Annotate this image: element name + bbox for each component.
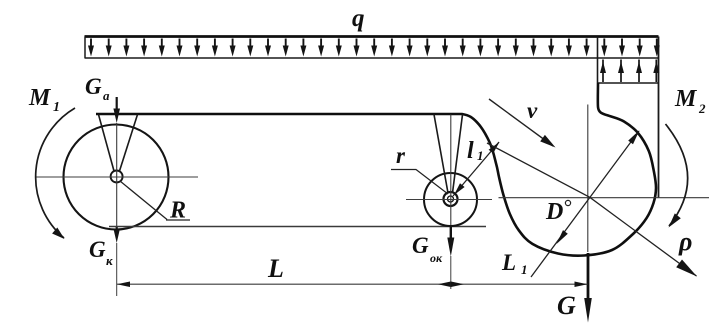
force Ga arrow <box>113 97 120 123</box>
pulley 1 wedge left <box>99 115 115 172</box>
label R <box>169 198 186 224</box>
svg-text:ν: ν <box>527 98 538 123</box>
pulley 2 hub inner <box>448 196 454 202</box>
label Gok <box>412 233 443 265</box>
radius r leader <box>391 170 448 195</box>
moment M1 arc <box>36 108 75 239</box>
belt line through drum center and force rho arrow <box>487 143 697 277</box>
svg-text:D: D <box>545 199 563 225</box>
svg-text:a: a <box>103 88 110 103</box>
dimension arrow left end <box>117 282 130 288</box>
svg-text:L: L <box>501 250 516 275</box>
dimension line L and L1 <box>117 283 588 285</box>
label rho <box>678 227 692 256</box>
svg-text:ок: ок <box>430 251 443 265</box>
extension line below Gk <box>116 243 118 296</box>
degree mark after D <box>565 200 570 205</box>
label M1 <box>28 85 60 115</box>
moment M2 arc <box>666 124 688 228</box>
pulley 1 wedge right <box>120 115 138 172</box>
pulley 2 wedge left <box>434 115 448 194</box>
second load box left edge <box>597 37 599 84</box>
dimension junction arrow pointing right <box>451 282 464 288</box>
svg-text:L: L <box>267 254 284 283</box>
svg-text:к: к <box>106 253 113 268</box>
distributed load q band top line <box>85 35 659 38</box>
distributed load arrows row 1 <box>88 39 660 57</box>
svg-text:1: 1 <box>521 262 528 277</box>
svg-text:G: G <box>412 233 429 258</box>
radius r label <box>396 143 406 168</box>
label L1 <box>501 250 528 277</box>
force Gk arrow <box>113 227 120 243</box>
force G arrow <box>584 253 592 323</box>
force Gok arrow <box>447 226 454 257</box>
svg-text:ρ: ρ <box>678 227 692 256</box>
label q <box>352 5 365 32</box>
svg-text:M: M <box>674 86 698 112</box>
load band right edge / right rope vertical <box>658 37 660 198</box>
pulley 1 horizontal centerline <box>36 176 198 178</box>
dimension junction arrow pointing left <box>438 282 451 288</box>
label l1 <box>467 138 484 164</box>
load band left edge <box>84 37 86 59</box>
label D <box>545 199 563 225</box>
pulley 2 wedge right <box>453 115 463 194</box>
label L <box>267 254 284 283</box>
second load box bottom line <box>598 82 659 84</box>
pulley 1 hub <box>111 171 123 183</box>
svg-text:G: G <box>89 237 106 262</box>
dimension arrow right end <box>575 282 588 288</box>
radius R leader <box>120 181 190 220</box>
svg-text:G: G <box>85 74 102 99</box>
svg-text:2: 2 <box>698 101 706 116</box>
drum horizontal centerline <box>499 197 710 199</box>
svg-text:1: 1 <box>477 148 484 163</box>
extension line below Gok <box>450 256 452 289</box>
belt: top run, wrap over small pulley, loop around drum, rope up <box>96 83 656 256</box>
label Gk <box>89 237 113 268</box>
svg-text:1: 1 <box>53 100 60 115</box>
svg-text:q: q <box>352 5 365 32</box>
label Ga <box>85 74 110 103</box>
drum vertical centerline <box>587 105 589 253</box>
distributed load q band bottom line <box>85 57 659 59</box>
pulley 1 (left) circle <box>64 125 169 230</box>
pulley 2 hub outer <box>444 192 458 206</box>
label M2 <box>674 86 706 116</box>
svg-text:M: M <box>28 85 52 111</box>
label v <box>527 98 538 123</box>
velocity v arrow <box>489 99 556 148</box>
svg-text:l: l <box>467 138 474 164</box>
dimension l1 line <box>453 142 500 196</box>
diameter D dimension line <box>531 130 640 277</box>
pulley 2 vertical axis line <box>450 115 452 226</box>
load arrows row 2 (upward) <box>600 60 659 83</box>
svg-text:r: r <box>396 143 406 168</box>
svg-text:R: R <box>169 198 186 224</box>
svg-text:G: G <box>557 291 576 320</box>
label G <box>557 291 576 320</box>
belt bottom run <box>109 226 486 228</box>
pulley 2 (small) circle <box>424 173 477 226</box>
pulley 2 horizontal centerline <box>406 199 492 201</box>
pulley 1 vertical axis line <box>116 123 118 226</box>
